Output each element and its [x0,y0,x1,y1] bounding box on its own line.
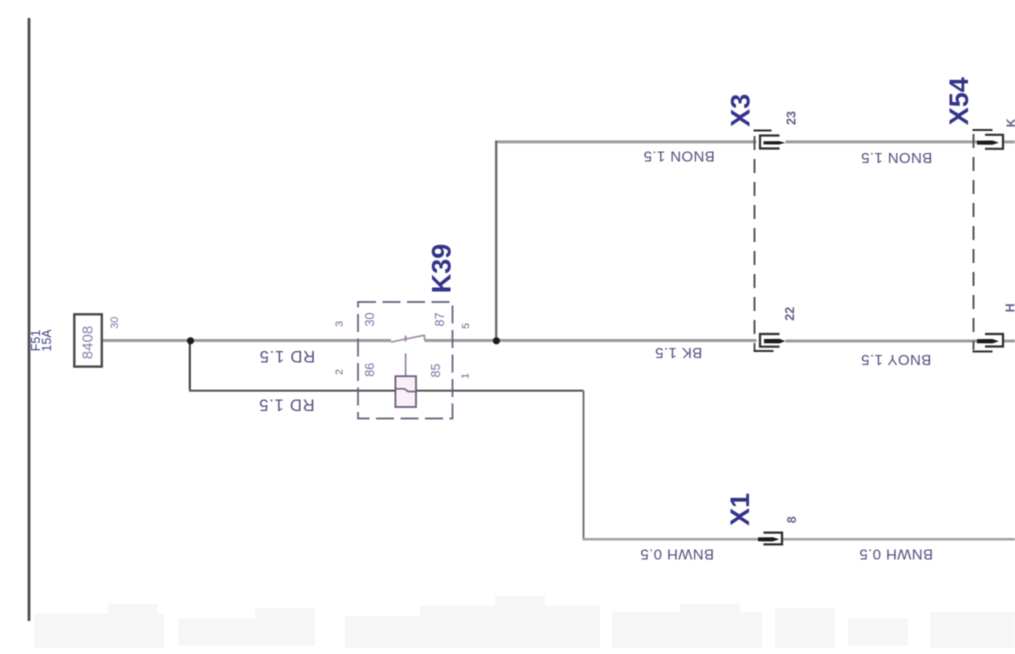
svg-text:1: 1 [460,373,472,379]
svg-text:5: 5 [460,323,472,329]
svg-text:BK 1.5: BK 1.5 [655,344,702,361]
svg-text:85: 85 [429,364,443,378]
svg-text:BNON 1.5: BNON 1.5 [861,149,933,166]
svg-text:30: 30 [363,313,377,327]
svg-text:X1: X1 [725,493,755,526]
svg-text:BNWH 0.5: BNWH 0.5 [859,545,933,562]
svg-text:BNWH 0.5: BNWH 0.5 [640,545,714,562]
svg-text:X3: X3 [725,94,755,127]
svg-text:2: 2 [334,369,346,375]
svg-text:8: 8 [785,516,799,523]
svg-text:X54: X54 [944,77,974,125]
svg-text:87: 87 [433,313,447,327]
svg-text:RD 1.5: RD 1.5 [259,347,315,365]
svg-text:BNON 1.5: BNON 1.5 [643,147,715,164]
svg-text:22: 22 [783,307,797,321]
svg-text:BNOY 1.5: BNOY 1.5 [861,351,931,368]
svg-text:8408: 8408 [80,326,97,359]
svg-text:30: 30 [109,317,121,329]
svg-text:15A: 15A [40,329,54,352]
svg-text:23: 23 [785,111,799,125]
svg-text:RD 1.5: RD 1.5 [258,396,314,414]
svg-text:86: 86 [363,363,377,377]
svg-text:K: K [1005,118,1015,127]
svg-text:3: 3 [334,321,346,327]
svg-text:K39: K39 [427,244,457,294]
svg-text:H: H [1004,303,1015,312]
